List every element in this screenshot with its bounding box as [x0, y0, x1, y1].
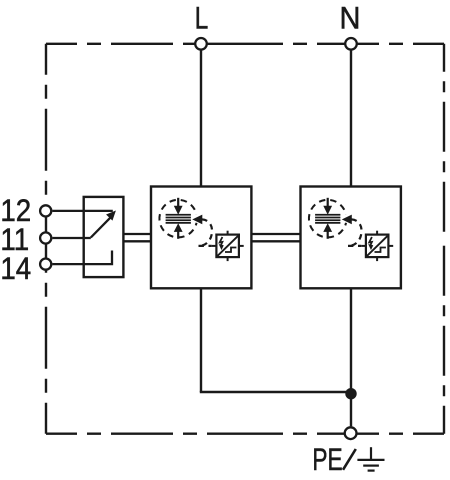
F1 electrode stack — [166, 215, 191, 223]
F2 trigger box diagonal — [367, 236, 388, 256]
F1 trigger dashed horizontal — [199, 245, 212, 247]
svg-text:N: N — [340, 2, 361, 36]
F2 trigger dashed horizontal — [348, 245, 361, 247]
wire bottom horizontal to junction — [200, 391, 351, 393]
wire F2 bottom to PE — [350, 288, 352, 426]
F1 trigger electronics box — [216, 235, 239, 258]
enclosure boundary left upper vertical (dash-dot) — [45, 44, 47, 240]
svg-text:PE: PE — [312, 441, 342, 477]
svg-text:14: 14 — [0, 251, 31, 286]
F1 trigger box bottom stub — [227, 257, 229, 261]
F1 trigger box diagonal — [218, 236, 239, 256]
enclosure boundary top-right horizontal (dash-dot) — [245, 43, 444, 45]
enclosure boundary right lower vertical (dash-dot) — [443, 240, 445, 434]
enclosure boundary left lower vertical (dash-dot) — [45, 240, 47, 434]
enclosure boundary bottom-left horizontal (dash-dot) — [46, 433, 245, 435]
contact 14 lead wire — [52, 251, 112, 265]
interconnect double line: contact box to F1 (lower) — [123, 240, 151, 242]
contact 12 lead wire — [52, 210, 112, 212]
F1 top arrowhead — [175, 206, 182, 213]
F2 bottom arrow line — [327, 230, 329, 239]
svg-text:L: L — [195, 0, 209, 35]
F1 trigger box top stub — [227, 231, 229, 235]
F2 lightning arrowhead — [369, 245, 373, 250]
label slash of PE/ — [343, 449, 356, 470]
F1 step waveform symbol — [225, 248, 236, 253]
F1 bottom arrowhead — [175, 224, 182, 231]
remote signalling changeover contact box — [84, 197, 124, 277]
F2 top arrow line — [327, 198, 329, 208]
F2 trigger box top stub — [376, 231, 378, 235]
terminal 14 circle — [40, 259, 51, 270]
moving contact arrowhead — [108, 212, 115, 219]
F2 step waveform symbol — [375, 248, 386, 253]
arrester block F2 outline — [301, 187, 401, 289]
wire F1 bottom down — [200, 288, 202, 392]
F2 bottom arrowhead — [324, 224, 331, 231]
F1 top arrow line — [177, 198, 179, 208]
F1 surge (lightning) symbol — [220, 237, 223, 245]
F2 trigger box right stub — [388, 245, 393, 247]
wire N terminal to arrester F2 top — [350, 51, 352, 187]
F2 electrode stack — [315, 215, 340, 223]
F1 trigger dashed arc — [201, 219, 213, 246]
F2 top arrowhead — [324, 206, 331, 213]
F2 trigger box bottom stub — [376, 257, 378, 261]
terminal 12 circle — [40, 205, 51, 216]
enclosure boundary bottom-right horizontal (dash-dot) — [245, 433, 444, 435]
moving contact arm (11 common) — [91, 218, 111, 238]
arrester block F1 outline — [151, 187, 251, 289]
F1 bottom arrow line — [177, 230, 179, 239]
F1 trigger arrowhead pointing at gap — [193, 215, 201, 223]
F2 trigger dashed arc — [350, 219, 362, 246]
F2 trigger box left stub — [361, 245, 366, 247]
F2 trigger electronics box — [366, 235, 389, 258]
wire L terminal to arrester F1 top — [200, 51, 202, 187]
F1 lightning arrowhead — [219, 245, 223, 250]
F2 spark gap dashed circle — [309, 200, 346, 238]
spark gap F1 group — [159, 198, 243, 261]
terminal PE circle — [345, 427, 357, 439]
enclosure boundary right upper vertical (dash-dot) — [443, 44, 445, 240]
enclosure boundary top-left horizontal (dash-dot) — [46, 43, 245, 45]
interconnect double line: F1 to F2 (lower) — [251, 240, 300, 242]
interconnect double line: contact box to F1 (upper) — [123, 233, 151, 235]
terminal 11 circle — [40, 232, 51, 243]
interconnect double line: F1 to F2 (upper) — [251, 233, 300, 235]
contact 11 lead wire — [52, 237, 90, 239]
F1 trigger box right stub — [239, 245, 244, 247]
junction node (filled dot) — [345, 388, 356, 399]
spark gap F2 group — [309, 198, 393, 261]
F1 trigger box left stub — [212, 245, 217, 247]
earth ground symbol — [357, 447, 384, 470]
F1 spark gap dashed circle — [159, 200, 196, 238]
F2 trigger arrowhead pointing at gap — [343, 215, 351, 223]
terminal L circle — [195, 38, 207, 50]
F2 surge (lightning) symbol — [369, 237, 372, 245]
terminal N circle — [345, 38, 357, 50]
